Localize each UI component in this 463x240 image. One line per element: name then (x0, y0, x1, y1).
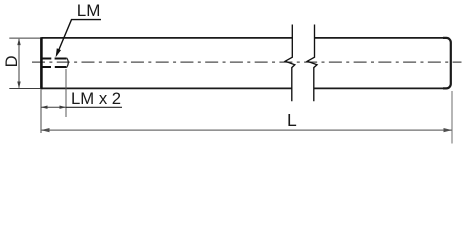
svg-text:LM x 2: LM x 2 (71, 89, 121, 108)
svg-text:D: D (2, 55, 21, 67)
svg-text:L: L (287, 110, 297, 130)
svg-text:LM: LM (77, 1, 101, 20)
